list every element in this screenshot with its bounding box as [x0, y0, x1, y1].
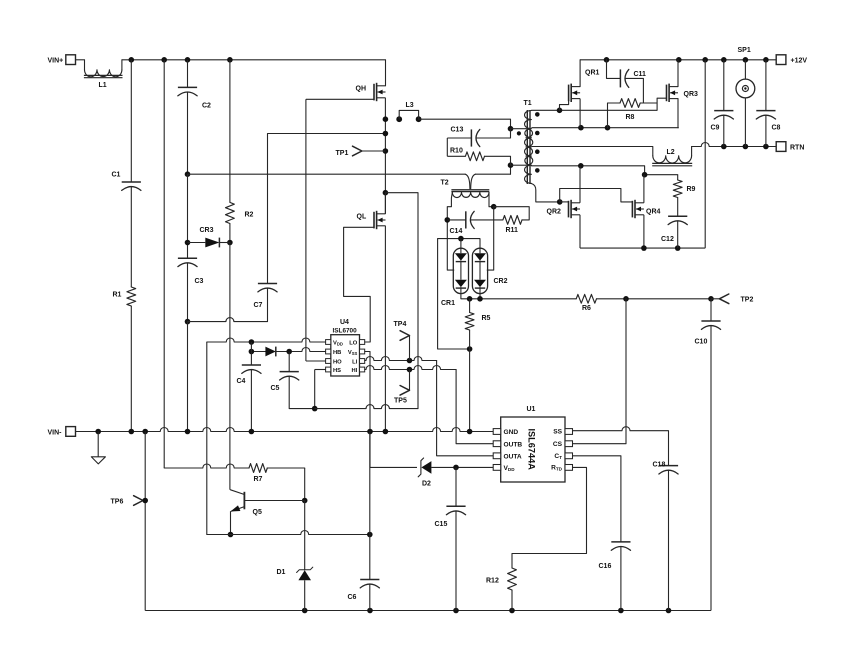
- node switch node junctions: [383, 116, 389, 195]
- svg-text:T2: T2: [441, 180, 449, 187]
- wire QL source: [384, 226, 386, 432]
- capacitor C5: [271, 352, 315, 409]
- svg-text:CR3: CR3: [200, 227, 214, 234]
- wire QR4 drain: [643, 175, 645, 203]
- resistor R7: [249, 464, 267, 484]
- wire current sense rail: [461, 294, 711, 303]
- svg-text:HS: HS: [333, 368, 341, 374]
- svg-text:TP4: TP4: [394, 321, 407, 328]
- node C14 left junction: [445, 217, 451, 223]
- wire HO line: [306, 99, 326, 361]
- svg-text:C18: C18: [653, 462, 666, 469]
- svg-text:GND: GND: [504, 429, 519, 436]
- terminal VIN-: [48, 427, 76, 437]
- node TP6 junction: [142, 498, 148, 504]
- svg-text:OUTB: OUTB: [504, 441, 523, 448]
- svg-text:QR1: QR1: [585, 70, 600, 77]
- wire bias column x=164: [163, 60, 165, 432]
- svg-text:R7: R7: [254, 476, 263, 483]
- capacitor C11: [607, 60, 647, 103]
- wire QR4 source: [643, 215, 645, 248]
- node tap4 junctions: [578, 163, 647, 178]
- resistor R10: [447, 147, 510, 165]
- wire mid-bus to T1 primary bottom: [510, 165, 512, 174]
- node T1 secondary polarity dots: [535, 112, 540, 173]
- svg-text:R11: R11: [506, 227, 519, 234]
- transistor QR2: [547, 200, 581, 218]
- svg-text:QH: QH: [356, 85, 367, 92]
- wire T2 secondary right lead: [489, 192, 494, 206]
- transformer T1 core: [524, 100, 532, 184]
- inductor L3: [396, 102, 421, 122]
- jack SP1: [736, 47, 755, 147]
- wire VDD line: [207, 338, 326, 342]
- svg-text:U4: U4: [340, 319, 349, 326]
- wire CS line: [573, 299, 627, 444]
- capacitor C12: [661, 216, 687, 248]
- transformer T2 secondary: [452, 192, 489, 197]
- wire HS to switch node: [315, 193, 418, 409]
- terminal VIN+: [48, 55, 76, 65]
- wire QR3 drain to rail: [677, 60, 679, 87]
- transformer T2 core: [441, 180, 490, 192]
- node QR1 gate junction: [557, 108, 563, 114]
- node T1 primary bottom (B): [508, 162, 514, 168]
- svg-text:R5: R5: [482, 315, 491, 322]
- diode CR2 dual pack: [472, 239, 507, 299]
- wire VSS ground column: [365, 352, 370, 468]
- wire Q5 emitter down: [230, 511, 232, 534]
- wire QH drain from rail: [385, 60, 387, 86]
- wire R7 to base column: [267, 467, 304, 469]
- svg-text:C7: C7: [254, 302, 263, 309]
- wire +12V rail riser: [704, 60, 706, 248]
- svg-text:C5: C5: [271, 385, 280, 392]
- svg-text:R9: R9: [687, 186, 696, 193]
- wire bias column x=207: [206, 342, 208, 535]
- test point TP4: [394, 321, 410, 361]
- wire LI line: [365, 357, 437, 361]
- svg-text:HB: HB: [333, 350, 341, 356]
- wire C3 column to VIN- rail: [187, 322, 189, 432]
- node +12V rail junctions: [604, 57, 769, 63]
- test point TP1: [336, 146, 386, 157]
- wire QR2 drain: [579, 166, 581, 203]
- svg-text:RTD: RTD: [551, 465, 563, 472]
- svg-text:Q5: Q5: [253, 509, 262, 516]
- wire T1 tap5 to QR2 gate: [531, 184, 559, 202]
- capacitor C9: [711, 60, 734, 147]
- zener D2: [418, 458, 431, 488]
- wire HB line: [251, 348, 325, 352]
- wire C13-R10 left link: [446, 138, 448, 156]
- wire QR1 source to tap2 rail: [579, 99, 581, 128]
- node T1 primary top (A): [508, 126, 514, 132]
- wire HS line: [315, 370, 326, 409]
- svg-text:L2: L2: [667, 149, 675, 156]
- terminal RTN: [776, 142, 804, 152]
- diode HB boot: [265, 347, 275, 357]
- svg-text:HI: HI: [351, 368, 357, 374]
- transistor QR1: [569, 70, 600, 103]
- terminal +12V: [776, 55, 807, 65]
- node HS junction: [312, 406, 318, 412]
- svg-text:C2: C2: [202, 103, 211, 110]
- wire LI to OUTA: [437, 361, 494, 456]
- resistor R9: [673, 175, 695, 217]
- svg-text:VDD: VDD: [504, 465, 516, 472]
- svg-text:VSS: VSS: [348, 350, 358, 356]
- node bottom rail junctions: [302, 608, 671, 614]
- node T2 right junction: [491, 204, 497, 210]
- wire C7 bottom line: [188, 318, 268, 322]
- node VIN+ rail junctions: [129, 57, 233, 63]
- transistor QR3: [667, 84, 699, 102]
- svg-text:C8: C8: [772, 124, 781, 131]
- node D2-C15 junction: [453, 465, 459, 471]
- wire D2 line right: [431, 466, 493, 468]
- svg-text:C11: C11: [634, 71, 647, 78]
- svg-text:SP1: SP1: [738, 47, 751, 54]
- node sense rail junctions: [467, 296, 714, 302]
- svg-text:ISL6744A: ISL6744A: [527, 429, 537, 471]
- svg-text:L1: L1: [99, 82, 107, 89]
- svg-text:TP5: TP5: [394, 398, 407, 405]
- svg-text:VIN+: VIN+: [48, 57, 64, 64]
- svg-text:C14: C14: [450, 228, 463, 235]
- svg-text:C13: C13: [451, 127, 464, 134]
- capacitor C18: [653, 431, 679, 611]
- svg-text:QL: QL: [357, 214, 367, 221]
- wire QR2 source: [579, 215, 581, 248]
- node QR2 gate junction: [557, 199, 563, 205]
- capacitor C8: [756, 60, 780, 147]
- svg-text:U1: U1: [527, 406, 536, 413]
- wire QR3 source to tap2 rail: [677, 99, 679, 128]
- transformer T2 primary pass-through: [465, 174, 475, 189]
- transistor QH: [356, 83, 386, 101]
- node CR3 cathode junction: [227, 240, 233, 246]
- wire mid-bus rail: [188, 173, 511, 175]
- transistor QL: [357, 211, 386, 229]
- IC U1 pin labels: [504, 429, 563, 472]
- node source rail junctions: [641, 245, 680, 251]
- resistor R11: [494, 207, 530, 234]
- svg-text:C12: C12: [661, 236, 674, 243]
- svg-text:VIN-: VIN-: [48, 430, 63, 437]
- svg-text:QR2: QR2: [547, 209, 562, 216]
- wire switch-node column: [384, 98, 386, 214]
- svg-text:C6: C6: [348, 594, 357, 601]
- svg-text:OUTA: OUTA: [504, 454, 522, 461]
- svg-text:C10: C10: [695, 339, 708, 346]
- capacitor C14: [447, 211, 503, 235]
- node D1 top junction link: [304, 565, 306, 571]
- capacitor C6: [348, 535, 380, 611]
- svg-text:C1: C1: [112, 172, 121, 179]
- svg-text:C4: C4: [237, 378, 246, 385]
- svg-text:QR3: QR3: [684, 91, 699, 98]
- svg-text:T1: T1: [524, 100, 532, 107]
- wire L3 to T1 node A: [419, 119, 511, 129]
- wire D2 line left: [370, 466, 417, 468]
- svg-text:TP1: TP1: [336, 150, 349, 157]
- svg-text:VDD: VDD: [333, 340, 343, 346]
- svg-text:RTN: RTN: [790, 145, 804, 152]
- svg-text:D1: D1: [277, 569, 286, 576]
- svg-text:C9: C9: [711, 124, 720, 131]
- capacitor C4: [237, 342, 262, 432]
- wire TP6 column: [144, 432, 146, 611]
- transistor Q5: [230, 490, 304, 516]
- IC U4 ISL6700 box: [331, 319, 360, 376]
- transistor QR4: [632, 200, 660, 218]
- node R5 bottom junction: [467, 346, 473, 352]
- wire T1 tap2 rail: [531, 127, 678, 129]
- resistor R1: [113, 187, 136, 432]
- wire QR1 drain to +12V rail: [579, 60, 581, 87]
- wire CR top link: [438, 239, 480, 349]
- wire QH gate: [306, 98, 374, 100]
- capacitor C1: [112, 60, 141, 191]
- svg-text:CR1: CR1: [441, 300, 455, 307]
- wire D2 left column: [369, 432, 371, 535]
- node VDD junction: [249, 339, 255, 345]
- capacitor C15: [435, 467, 466, 610]
- wire CT line: [573, 456, 621, 542]
- svg-text:R8: R8: [626, 114, 635, 121]
- svg-text:C3: C3: [195, 278, 204, 285]
- wire T1 tap1 to gates: [531, 109, 657, 111]
- test point TP2: [711, 294, 753, 304]
- test point TP5: [394, 370, 410, 405]
- wire HI line: [365, 366, 456, 370]
- resistor R2: [226, 60, 254, 243]
- node C3 bottom junction: [185, 319, 191, 325]
- transformer T1 primary winding: [511, 129, 533, 166]
- node tap2 junctions: [578, 125, 610, 131]
- svg-text:D2: D2: [422, 481, 431, 488]
- svg-text:SS: SS: [553, 429, 562, 436]
- resistor R5: [465, 299, 490, 432]
- capacitor C16: [599, 542, 631, 611]
- node HB junctions: [249, 349, 292, 355]
- svg-text:CT: CT: [554, 453, 562, 460]
- svg-text:C16: C16: [599, 563, 612, 570]
- IC U1 pin boxes: [493, 429, 572, 471]
- wire CR2 middle column: [487, 207, 494, 270]
- svg-text:R12: R12: [486, 578, 499, 585]
- node HI junction: [407, 367, 413, 373]
- svg-text:TP2: TP2: [741, 297, 754, 304]
- wire QR2-QR4 gate link: [560, 189, 633, 202]
- IC U4 pin boxes: [326, 340, 365, 372]
- svg-text:R1: R1: [113, 291, 122, 298]
- wire QL drain: [384, 193, 386, 214]
- diode CR1 dual pack: [441, 239, 469, 307]
- wire VIN- rail: [76, 428, 494, 432]
- test point TP6: [111, 496, 146, 506]
- inductor L2: [652, 147, 692, 166]
- wire T1 tap4 rail: [531, 166, 677, 175]
- wire R2 column down to Q5 collector: [229, 243, 231, 490]
- capacitor C3: [178, 258, 204, 321]
- node VIN- rail junctions: [95, 429, 472, 435]
- svg-text:R10: R10: [450, 147, 463, 154]
- zener D1: [277, 567, 313, 610]
- svg-text:R6: R6: [582, 305, 591, 312]
- node mid-bus junction: [185, 171, 191, 177]
- svg-text:C15: C15: [435, 521, 448, 528]
- svg-text:CS: CS: [553, 441, 563, 448]
- IC U4 pin labels: [333, 340, 358, 374]
- resistor R12: [486, 554, 516, 611]
- wire LO gate path: [344, 227, 374, 342]
- node VSS-D2 column junction: [367, 532, 373, 538]
- svg-text:CR2: CR2: [494, 278, 508, 285]
- wire VIN+ to L1: [76, 59, 85, 61]
- inductor L1: [84, 60, 123, 89]
- node LI junction: [407, 358, 413, 364]
- node Q5 base junction: [302, 498, 308, 504]
- wire top VIN+ rail: [122, 59, 386, 61]
- wire bias column to R7 rail: [164, 432, 249, 469]
- svg-text:HO: HO: [333, 359, 342, 365]
- svg-text:LI: LI: [352, 359, 358, 365]
- ground symbol: [91, 432, 105, 464]
- wire base junction down: [304, 501, 306, 565]
- wire RTD line: [512, 467, 587, 553]
- resistor R8: [608, 99, 658, 128]
- node CR1 top junction: [458, 236, 464, 242]
- wire rectifier source rail: [580, 247, 705, 249]
- wire Q5 base column: [304, 468, 306, 501]
- svg-text:ISL6700: ISL6700: [333, 327, 358, 334]
- wire QR1 gate link: [560, 100, 569, 110]
- capacitor C7: [254, 134, 278, 322]
- svg-text:+12V: +12V: [791, 57, 808, 64]
- node Q5 emitter junction: [228, 532, 234, 538]
- wire T2 secondary left lead: [447, 192, 454, 270]
- wire C7 top to switch node: [268, 133, 386, 135]
- svg-text:LO: LO: [349, 340, 358, 346]
- wire RTN rail: [692, 143, 777, 147]
- wire QR3 gate link: [657, 98, 666, 110]
- transformer T1 secondary winding: [525, 110, 532, 183]
- svg-text:TP6: TP6: [111, 498, 124, 505]
- wire C3 column upper: [187, 174, 189, 258]
- wire bottom rail: [145, 610, 711, 612]
- node RTN rail junctions: [721, 144, 769, 150]
- wire SS line: [573, 427, 669, 431]
- svg-text:R2: R2: [245, 212, 254, 219]
- wire Q5 bottom rail: [207, 531, 370, 535]
- wire T1 tap3 to L2: [531, 146, 652, 148]
- diode CR3: [188, 227, 230, 247]
- node CR3 anode junction: [185, 240, 191, 246]
- wire +12V top rail: [580, 59, 776, 61]
- capacitor C13: [447, 127, 510, 147]
- capacitor C2: [178, 60, 211, 174]
- wire QR2 gate lead: [560, 201, 569, 203]
- capacitor C10: [695, 299, 721, 611]
- svg-text:L3: L3: [406, 102, 414, 109]
- wire HI to OUTB: [456, 370, 493, 444]
- svg-text:QR4: QR4: [646, 209, 661, 216]
- node T1 primary polarity dot: [517, 131, 521, 135]
- IC U1 ISL6744A box: [501, 406, 565, 482]
